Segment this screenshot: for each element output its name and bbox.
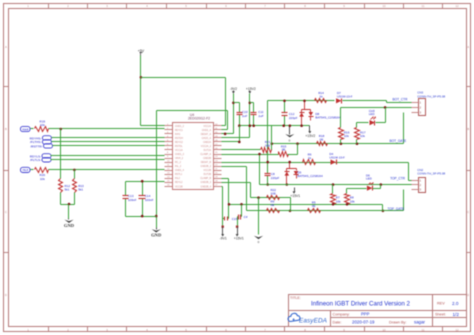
wire railB left end drop to R21 (271, 126, 273, 151)
svg-text:OUT2B: OUT2B (203, 174, 211, 176)
svg-text:10: 10 (382, 328, 386, 332)
svg-text:REV: REV (437, 302, 445, 306)
wire C10 stub (234, 102, 240, 104)
resistor R14 (315, 99, 327, 103)
U4 pins (165, 125, 173, 127)
node gnd2 junction (155, 215, 158, 218)
svg-text:LED: LED (366, 177, 373, 181)
svg-text:C: C (467, 210, 469, 214)
svg-text:BAT54S_C2S8164: BAT54S_C2S8164 (298, 174, 323, 178)
svg-text:Company:: Company: (333, 312, 350, 316)
svg-text:VCC2A: VCC2A (203, 125, 211, 128)
diode D5 BAT54S (289, 163, 291, 169)
wire to CN2 pin3 (403, 190, 405, 211)
svg-text:5k1: 5k1 (78, 188, 83, 192)
svg-text:GND1_2: GND1_2 (175, 126, 185, 128)
node riser crossing (224, 133, 227, 136)
wire INH8 down to R12 (60, 129, 62, 179)
resistor R19 (35, 127, 49, 132)
svg-text:INL2: INL2 (175, 178, 181, 180)
wire R16 riser to pin2 wire (340, 108, 342, 128)
svg-text:B: B (5, 127, 7, 131)
svg-text:VCC2A_2: VCC2A_2 (201, 145, 212, 148)
diode D4 (331, 160, 337, 165)
wire D6 cathode riser (380, 185, 382, 189)
svg-text:US1M-13-F: US1M-13-F (329, 155, 345, 159)
wire rail A (268, 100, 335, 102)
net flag 0 (top) (289, 126, 291, 135)
capacitor C8 (267, 163, 269, 174)
svg-text:RC_2: RC_2 (175, 162, 182, 164)
resistor R5 (308, 209, 321, 213)
svg-text:INH1: INH1 (175, 134, 181, 136)
svg-text:1k: 1k (308, 156, 312, 160)
wire TOP_GATE rail (247, 210, 404, 212)
svg-text:+15V2: +15V2 (305, 134, 315, 138)
wire D7 to CN3 pin1 (343, 100, 387, 102)
wire BOT_GATE rail (272, 143, 404, 145)
svg-text:-9V2: -9V2 (230, 87, 237, 91)
svg-text:220pF: 220pF (289, 116, 298, 120)
wire rail A left end drop to rail C (267, 101, 269, 163)
svg-text:VINH_2: VINH_2 (175, 158, 184, 160)
svg-text:C: C (5, 210, 7, 214)
svg-text:GND: GND (151, 232, 162, 237)
diode D8 BAT54S (304, 101, 306, 110)
wire pin row i4 to rail B (222, 141, 240, 143)
svg-text:+15V1: +15V1 (234, 237, 244, 241)
wire C11 stub (250, 102, 254, 104)
svg-text:5k1: 5k1 (65, 188, 70, 192)
wire (51, 159, 165, 161)
svg-text:GND: GND (64, 223, 75, 228)
svg-text:1k: 1k (319, 95, 323, 99)
frame tick marks left/right (4, 86, 9, 88)
wire TOP_GATE rail riser (222, 166, 247, 168)
svg-text:A: A (5, 45, 7, 49)
node +5V junction (140, 76, 143, 79)
wire INL8 to U4 (49, 169, 165, 171)
svg-text:12: 12 (455, 328, 459, 332)
svg-text:EasyEDA: EasyEDA (299, 317, 327, 324)
svg-text:OUT2A: OUT2A (203, 149, 211, 152)
svg-text:CLAMP_A: CLAMP_A (200, 153, 211, 156)
node INH8 junction (59, 128, 62, 131)
resistor R12 (59, 179, 63, 193)
svg-text:Date:: Date: (333, 320, 342, 324)
title block box (289, 295, 467, 327)
capacitor C14 (142, 182, 144, 196)
svg-text:GH2O_A: GH2O_A (202, 137, 212, 140)
wire to GND (68, 205, 70, 219)
node -9V2 stub (232, 102, 235, 105)
svg-text:BOT_GATE: BOT_GATE (390, 139, 407, 143)
svg-text:RSTL1: RSTL1 (175, 174, 183, 176)
resistor R13 (73, 179, 77, 193)
svg-text:CONN-TH_3P-P5.08: CONN-TH_3P-P5.08 (417, 172, 445, 176)
svg-text:DESAT_A: DESAT_A (201, 133, 212, 136)
svg-text:12: 12 (455, 4, 459, 8)
svg-text:/RSTTR-: /RSTTR- (30, 144, 42, 148)
svg-text:TOP_GATE: TOP_GATE (388, 207, 405, 211)
ground GND1 (68, 219, 70, 220)
resistor R17 (356, 123, 358, 128)
wire -9V2 riser (233, 94, 235, 134)
svg-text:2020-07-19: 2020-07-19 (352, 320, 375, 325)
svg-text:10E: 10E (271, 192, 276, 196)
resistor R9 (267, 209, 280, 213)
svg-text:TITLE:: TITLE: (290, 296, 301, 300)
wire +5V branch to right (141, 77, 226, 79)
wire (53, 145, 165, 147)
wire to CN3 pin3 (403, 113, 405, 144)
resistor R16 (339, 128, 344, 140)
wire R22 rail riser (222, 182, 251, 184)
wire R15 riser to gate rail (288, 154, 298, 156)
svg-text:Infineon IGBT Driver Card Vers: Infineon IGBT Driver Card Version 2 (311, 301, 410, 308)
svg-text:1/2: 1/2 (453, 312, 460, 317)
wire rail C (222, 162, 409, 164)
svg-text:2.0: 2.0 (452, 301, 459, 306)
svg-text:INL8: INL8 (22, 168, 28, 172)
svg-text:RDYC1: RDYC1 (175, 130, 184, 132)
svg-text:INH8: INH8 (22, 127, 29, 131)
svg-text:100nF: 100nF (128, 198, 137, 202)
wire pin riser to C15 (222, 186, 223, 188)
svg-text:sagar: sagar (414, 320, 426, 325)
capacitor C10 (239, 103, 241, 113)
svg-text:C4: C4 (244, 215, 248, 219)
svg-text:CLAMP_B: CLAMP_B (200, 177, 211, 180)
svg-text:RDYC2: RDYC2 (175, 142, 184, 144)
frame tick marks top/bottom (48, 4, 50, 9)
svg-text:10k: 10k (350, 199, 355, 203)
wire pin row to R21 (222, 149, 261, 151)
title block lines (289, 310, 467, 312)
svg-text:0E: 0E (320, 137, 324, 141)
svg-text:D: D (467, 293, 469, 297)
wire LED cathode riser (385, 108, 387, 123)
wire (51, 155, 165, 157)
svg-text:GND2A: GND2A (203, 141, 211, 144)
svg-text:A: A (467, 45, 469, 49)
wire C13/C14 bottom rail (126, 216, 157, 218)
power -9V1 flag (222, 227, 224, 235)
svg-text:Sheet:: Sheet: (435, 313, 446, 317)
port INL8 (21, 167, 31, 172)
wire +5V down to pin 32 (225, 78, 227, 126)
svg-text:PPP: PPP (361, 312, 370, 317)
resistor R6 (303, 160, 316, 165)
svg-text:B: B (467, 127, 469, 131)
svg-text:GND2B_2: GND2B_2 (201, 166, 212, 168)
power +15V1 flag (2) (237, 227, 239, 235)
svg-text:INL_2: INL_2 (175, 166, 182, 168)
svg-text:/FLTLS-: /FLTLS- (30, 158, 41, 162)
svg-text:10k: 10k (344, 134, 349, 138)
wire mid rail B (240, 125, 310, 127)
svg-text:1uF: 1uF (258, 114, 263, 118)
svg-text:-9V1: -9V1 (220, 237, 227, 241)
svg-text:10E: 10E (265, 143, 270, 147)
svg-text:VCC2B: VCC2B (203, 170, 211, 172)
capacitor C4 (237, 217, 239, 227)
wire R22 drop (290, 198, 292, 211)
resistor R20 (35, 168, 49, 173)
svg-text:DESAT_B: DESAT_B (201, 161, 212, 164)
capacitor C12 (284, 101, 286, 113)
wire INH8 to U4 (49, 128, 165, 130)
resistor R8 (346, 189, 348, 194)
node gnd1 junction (68, 203, 71, 206)
wire r7-row drop to bottom rail (259, 155, 261, 185)
diode D7 (336, 98, 342, 103)
net flag 0 drop (257, 196, 260, 199)
wire pin31 riser (227, 111, 229, 130)
svg-text:LED: LED (369, 112, 376, 116)
svg-text:RSTDH: RSTDH (175, 138, 183, 140)
svg-text:100nF: 100nF (145, 198, 154, 202)
wire R12/R13 bottoms (60, 193, 62, 205)
svg-text:11: 11 (422, 4, 425, 8)
svg-text:0E: 0E (271, 203, 275, 207)
svg-text:CONN-TH_3P-P5.08: CONN-TH_3P-P5.08 (417, 95, 445, 99)
svg-text:GND2_A: GND2_A (202, 129, 212, 132)
resistor R18 (317, 142, 328, 146)
svg-text:GND2B: GND2B (203, 158, 211, 160)
node INL8 junction (73, 169, 76, 172)
endpoint squares (222, 226, 224, 228)
svg-text:2ED020I12-F2: 2ED020I12-F2 (188, 117, 210, 121)
resistor R7 (332, 185, 334, 194)
resistor R22 (267, 196, 280, 200)
svg-text:+15V2: +15V2 (246, 87, 256, 91)
wire INL8 down to R13 (74, 170, 76, 179)
op-amp U4 2ED020I12-F2 body (173, 123, 214, 190)
port INH8 (21, 126, 31, 131)
svg-text:10k: 10k (360, 134, 365, 138)
node +15V2 stub (249, 102, 252, 105)
wire left vertical to GND2 (156, 111, 158, 228)
resistor R21 (261, 148, 272, 153)
svg-text:10: 10 (382, 4, 386, 8)
capacitor C15 (223, 218, 225, 220)
wire bottom rail (emitter) (260, 184, 412, 186)
svg-text:BAT54S_C2S8164: BAT54S_C2S8164 (315, 116, 340, 120)
svg-text:GND2B_4: GND2B_4 (201, 186, 212, 188)
svg-text:VCC1B: VCC1B (175, 186, 183, 188)
svg-text:GND1_3: GND1_3 (175, 154, 185, 156)
svg-text:GND2B_3: GND2B_3 (201, 182, 212, 184)
svg-text:TOP_CTR: TOP_CTR (390, 177, 406, 181)
wire (52, 137, 165, 139)
resistor R15 (279, 152, 289, 157)
svg-text:10k: 10k (336, 199, 341, 203)
svg-text:Drawn By:: Drawn By: (389, 320, 407, 324)
wire CN3 pin2 rail (341, 107, 412, 109)
wire pin row r7 (222, 154, 279, 156)
ground GND2 (156, 228, 158, 230)
svg-text:VCC1A: VCC1A (175, 149, 183, 152)
wire R7/R8 bottom rail (229, 204, 383, 206)
wire (52, 141, 165, 143)
wire top loop rail (157, 110, 228, 112)
wire +5V vertical (140, 56, 142, 126)
svg-text:BOT_CTR: BOT_CTR (393, 98, 409, 102)
svg-text:10k: 10k (40, 123, 45, 127)
wire rail C to CN2 pin1 (408, 163, 410, 181)
svg-text:220pF: 220pF (271, 176, 280, 180)
wire R22 rail (251, 197, 291, 199)
svg-text:11: 11 (422, 328, 425, 332)
svg-text:0E: 0E (282, 148, 286, 152)
svg-text:RSTDL: RSTDL (175, 146, 183, 148)
wire pin riser x229 (222, 178, 229, 180)
wire +5V into pin 1 (141, 125, 165, 127)
svg-text:D: D (5, 293, 7, 297)
svg-text:+15V1: +15V1 (290, 194, 300, 198)
svg-text:0E: 0E (312, 204, 316, 208)
capacitor C11 (253, 103, 255, 113)
power +15V1 flag (1) (294, 188, 296, 192)
power +15V2 flag (2) (309, 126, 311, 132)
svg-text:10k: 10k (40, 177, 45, 181)
svg-text:1uF: 1uF (242, 114, 247, 118)
wire C13/C14 top rail (126, 181, 165, 183)
svg-text:GND1_4: GND1_4 (175, 170, 185, 172)
svg-text:C15: C15 (232, 217, 238, 221)
capacitor C13 (125, 182, 127, 196)
EasyEDA logo (288, 313, 300, 321)
svg-text:US1M-13-F: US1M-13-F (337, 95, 353, 99)
svg-text:RDYL2: RDYL2 (175, 182, 183, 184)
wire +15V2 riser (249, 94, 251, 138)
